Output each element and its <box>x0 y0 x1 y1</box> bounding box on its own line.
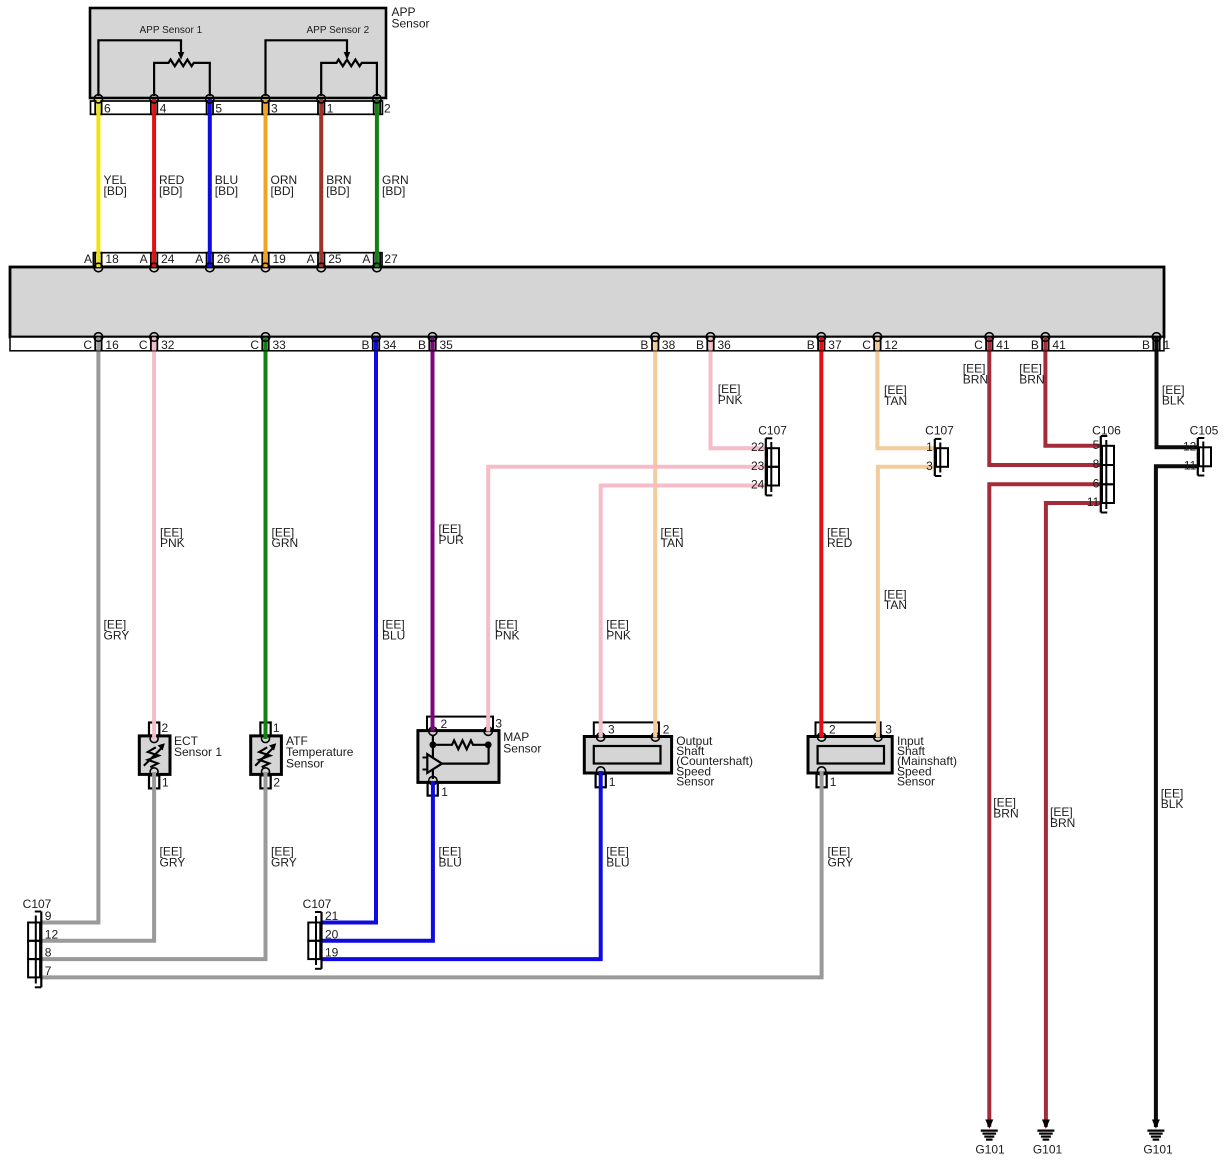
svg-text:19: 19 <box>325 946 339 960</box>
svg-text:Sensor: Sensor <box>503 741 541 755</box>
wire GRY: C107 pin 7 to input speed sensor pin 1 <box>41 771 853 977</box>
svg-text:RED: RED <box>827 536 853 550</box>
svg-text:BLU: BLU <box>439 855 462 869</box>
svg-text:26: 26 <box>217 252 231 266</box>
svg-text:12: 12 <box>1183 439 1197 453</box>
svg-text:TAN: TAN <box>884 598 907 612</box>
svg-text:C: C <box>83 338 92 352</box>
svg-text:41: 41 <box>996 338 1010 352</box>
svg-text:20: 20 <box>325 927 339 941</box>
svg-text:C: C <box>250 338 259 352</box>
svg-text:1: 1 <box>926 440 933 454</box>
svg-text:37: 37 <box>828 338 842 352</box>
svg-text:TAN: TAN <box>884 394 907 408</box>
svg-text:C107: C107 <box>758 424 787 438</box>
svg-text:BRN: BRN <box>1050 816 1075 830</box>
wire BLK: C105 pin 11 to ground G101 <box>1156 466 1199 1127</box>
svg-text:Sensor 1: Sensor 1 <box>174 745 222 759</box>
APP box pin terminals (circles) <box>94 95 381 103</box>
svg-text:1: 1 <box>327 102 334 116</box>
wire PNK: ECM B36 to C107 pin 22 <box>711 337 767 448</box>
svg-text:22: 22 <box>751 440 765 454</box>
potentiometer APP Sensor 2 wiper <box>266 40 351 96</box>
svg-text:A: A <box>140 252 148 266</box>
wire BLU: ECM B34 to C107 pin 21 <box>321 337 405 923</box>
svg-text:23: 23 <box>751 459 765 473</box>
svg-text:3: 3 <box>608 722 615 736</box>
svg-text:C105: C105 <box>1190 424 1219 438</box>
svg-text:12: 12 <box>45 927 59 941</box>
svg-text:B: B <box>807 338 815 352</box>
Input Shaft (Mainshaft) Speed Sensor <box>808 722 957 789</box>
svg-text:2: 2 <box>162 721 169 735</box>
svg-text:2: 2 <box>441 717 448 731</box>
svg-text:1: 1 <box>830 775 837 789</box>
wire BRN: ECM B41 to C106 pin 5 <box>1019 337 1101 446</box>
wire PNK: C107 pin 23 to MAP sensor pin 3 <box>488 467 766 732</box>
wire GRY: ECT sensor pin 1 to C107 pin 12 <box>41 772 185 941</box>
svg-text:Sensor: Sensor <box>392 16 430 30</box>
wire TAN: ECM B38 to output speed sensor pin 2 <box>655 337 683 738</box>
svg-text:BRN: BRN <box>1019 372 1044 386</box>
svg-text:27: 27 <box>384 252 398 266</box>
potentiometer APP Sensor 1 resistor <box>154 60 210 96</box>
svg-text:36: 36 <box>718 338 732 352</box>
wire BRN: C106 pin 11 to ground G101 <box>1046 503 1102 1127</box>
ECM top edge pin terminals (circles) <box>94 263 381 272</box>
svg-text:A: A <box>195 252 203 266</box>
svg-text:GRY: GRY <box>271 855 297 869</box>
svg-text:2: 2 <box>663 722 670 736</box>
svg-text:25: 25 <box>328 252 342 266</box>
wire YEL: APP pin 6 to ECM A18 <box>84 99 127 267</box>
svg-text:GRY: GRY <box>828 855 854 869</box>
svg-text:3: 3 <box>271 102 278 116</box>
svg-text:BLK: BLK <box>1161 797 1184 811</box>
svg-text:[BD]: [BD] <box>326 184 349 198</box>
wire TAN: ECM C12 to C107 pin 1 <box>877 337 935 448</box>
svg-text:C107: C107 <box>925 424 954 438</box>
wire PNK: C107 pin 24 to output speed sensor pin 3 <box>601 486 766 738</box>
wire BLU: MAP sensor pin 1 to C107 pin 20 <box>321 781 462 941</box>
svg-text:33: 33 <box>273 338 287 352</box>
svg-text:34: 34 <box>383 338 397 352</box>
svg-text:6: 6 <box>1093 476 1100 490</box>
svg-text:B: B <box>418 338 426 352</box>
wire GRY: ECM C16 to C107 pin 9 <box>41 337 129 923</box>
wire GRN: APP pin 2 to ECM A27 <box>362 99 408 267</box>
svg-text:8: 8 <box>45 946 52 960</box>
svg-text:1: 1 <box>273 721 280 735</box>
svg-text:Sensor: Sensor <box>897 775 935 789</box>
svg-text:C: C <box>974 338 983 352</box>
ECM module body <box>10 267 1164 337</box>
ECM bottom pin labels <box>83 338 1170 352</box>
svg-text:11: 11 <box>1184 458 1197 472</box>
wire BLU: output speed sensor pin 1 to C107 pin 19 <box>321 771 630 959</box>
wire BRN: APP pin 1 to ECM A25 <box>307 99 352 267</box>
svg-text:3: 3 <box>885 722 892 736</box>
svg-text:2: 2 <box>829 722 836 736</box>
svg-text:11: 11 <box>1087 495 1100 509</box>
connector C106 (pins 5,8,6,11) <box>1087 424 1121 513</box>
svg-text:G101: G101 <box>1033 1143 1063 1157</box>
svg-text:[BD]: [BD] <box>159 184 182 198</box>
ECM connector strip A (pins 18,24,26,19,25,27) <box>93 253 382 267</box>
connector C107 (pins 21,20,19) <box>303 897 339 969</box>
Output Shaft (Countershaft) Speed Sensor <box>584 722 753 789</box>
wire RED: ECM B37 to input speed sensor pin 2 <box>821 337 852 738</box>
svg-text:APP Sensor 2: APP Sensor 2 <box>307 25 370 36</box>
svg-text:B: B <box>361 338 369 352</box>
svg-text:PNK: PNK <box>606 629 631 643</box>
svg-text:A: A <box>251 252 259 266</box>
ground G101 (BRN wire from C106 pin 6) <box>975 1120 1005 1157</box>
svg-text:1: 1 <box>162 775 169 789</box>
wire ORN: APP pin 3 to ECM A19 <box>251 99 297 267</box>
svg-text:6: 6 <box>104 102 111 116</box>
svg-text:APP Sensor 1: APP Sensor 1 <box>140 25 203 36</box>
svg-text:A: A <box>84 252 92 266</box>
svg-text:Sensor: Sensor <box>286 757 324 771</box>
svg-text:A: A <box>362 252 370 266</box>
ECM bottom pin entries (B strip) <box>95 337 1160 350</box>
svg-text:21: 21 <box>325 909 339 923</box>
svg-text:24: 24 <box>161 252 175 266</box>
wire RED: APP pin 4 to ECM A24 <box>140 99 185 267</box>
svg-text:5: 5 <box>215 102 222 116</box>
svg-text:G101: G101 <box>1143 1143 1173 1157</box>
svg-text:9: 9 <box>45 909 52 923</box>
svg-text:PNK: PNK <box>495 629 520 643</box>
svg-text:7: 7 <box>45 964 52 978</box>
redraw wire stubs through B strip pin boxes <box>98 337 1156 350</box>
wire PNK: ECM C32 to ECT sensor pin 2 <box>154 337 185 739</box>
svg-text:B: B <box>696 338 704 352</box>
wire TAN: C107 pin 3 to input speed sensor pin 3 <box>878 467 936 738</box>
MAP Sensor <box>418 717 541 800</box>
svg-text:[BD]: [BD] <box>215 184 238 198</box>
svg-text:BRN: BRN <box>963 372 988 386</box>
svg-text:B: B <box>640 338 648 352</box>
ground G101 (BLK wire from C105 pin 11) <box>1143 1120 1173 1157</box>
svg-text:[BD]: [BD] <box>382 184 405 198</box>
svg-text:B: B <box>1142 338 1150 352</box>
APP Sensor box <box>90 5 430 98</box>
svg-text:PNK: PNK <box>718 393 743 407</box>
connector C107 (pins 22,23,24) <box>751 424 787 496</box>
svg-text:16: 16 <box>105 338 119 352</box>
connector C107 (pins 1,3) <box>925 424 954 477</box>
svg-text:PNK: PNK <box>160 536 185 550</box>
svg-text:GRY: GRY <box>104 629 130 643</box>
wire GRY: ATF sensor pin 2 to C107 pin 8 <box>41 772 297 959</box>
connector C105 (pins 12,11) <box>1183 424 1219 476</box>
svg-text:C: C <box>139 338 148 352</box>
svg-text:1: 1 <box>609 775 616 789</box>
svg-text:PUR: PUR <box>439 533 465 547</box>
APP sensor connector strip pins 6,4,5,3,1,2 <box>91 101 383 114</box>
svg-text:3: 3 <box>926 459 933 473</box>
svg-text:41: 41 <box>1052 338 1066 352</box>
ECM connector strip B (bottom pins) <box>10 337 1164 351</box>
svg-text:2: 2 <box>384 102 391 116</box>
svg-text:BRN: BRN <box>993 807 1018 821</box>
svg-text:2: 2 <box>273 775 280 789</box>
svg-text:G101: G101 <box>975 1143 1005 1157</box>
svg-text:A: A <box>307 252 315 266</box>
svg-text:BLU: BLU <box>606 855 629 869</box>
svg-text:Sensor: Sensor <box>676 775 714 789</box>
svg-text:24: 24 <box>751 478 765 492</box>
svg-text:BLK: BLK <box>1162 394 1185 408</box>
wire GRN: ECM C33 to ATF sensor pin 1 <box>266 337 299 739</box>
potentiometer APP Sensor 2 resistor <box>321 60 377 96</box>
svg-text:19: 19 <box>273 252 287 266</box>
ATF Temperature Sensor (thermistor) <box>251 721 354 789</box>
svg-text:1: 1 <box>1164 338 1171 352</box>
svg-text:C: C <box>862 338 871 352</box>
svg-text:18: 18 <box>105 252 119 266</box>
ECT Sensor 1 (thermistor) <box>139 721 222 789</box>
svg-text:TAN: TAN <box>661 536 684 550</box>
wire PUR: ECM B35 to MAP sensor pin 2 <box>433 337 465 732</box>
svg-text:1: 1 <box>441 785 448 799</box>
wire BRN: C106 pin 6 to ground G101 <box>989 484 1101 1127</box>
wire BRN: ECM C41 to C106 pin 8 <box>963 337 1102 465</box>
svg-text:4: 4 <box>160 102 167 116</box>
svg-text:B: B <box>1031 338 1039 352</box>
svg-text:12: 12 <box>884 338 898 352</box>
potentiometer APP Sensor 1 wiper <box>98 40 184 96</box>
ECM bottom edge pin terminals (circles) <box>94 333 1161 342</box>
svg-text:[BD]: [BD] <box>104 184 127 198</box>
ground G101 (BRN wire from C106 pin 11) <box>1033 1120 1063 1157</box>
svg-text:38: 38 <box>662 338 676 352</box>
svg-text:[BD]: [BD] <box>271 184 294 198</box>
connector C107 (pins 9,12,8,7) <box>23 897 59 987</box>
svg-text:GRY: GRY <box>160 855 186 869</box>
svg-text:5: 5 <box>1093 438 1100 452</box>
svg-text:35: 35 <box>440 338 454 352</box>
svg-text:8: 8 <box>1093 457 1100 471</box>
wire BLK: ECM B1 to C105 pin 12 <box>1157 337 1199 447</box>
svg-text:GRN: GRN <box>272 536 299 550</box>
svg-text:3: 3 <box>495 717 502 731</box>
wire BLU: APP pin 5 to ECM A26 <box>195 99 238 267</box>
svg-text:BLU: BLU <box>382 629 405 643</box>
svg-text:32: 32 <box>161 338 175 352</box>
